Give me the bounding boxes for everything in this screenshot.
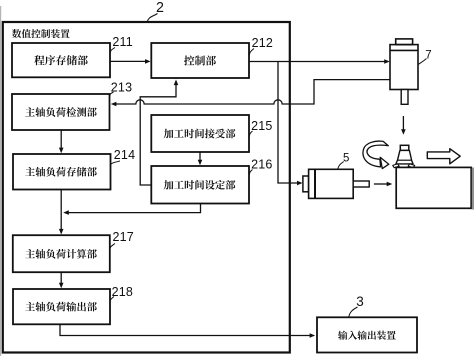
svg-text:214: 214: [114, 148, 135, 162]
leader 7: [418, 59, 426, 65]
leader 217: [110, 244, 115, 249]
wire 216 bottom left to 214-217 line: [69, 204, 201, 213]
svg-text:5: 5: [343, 153, 349, 165]
workpiece: cone body: [396, 150, 413, 164]
text 主轴负荷检测部: [25, 107, 97, 117]
table right shadow: [472, 168, 474, 210]
text 主轴负荷存储部: [25, 167, 97, 177]
svg-text:215: 215: [251, 119, 272, 133]
tool 7: holder body: [390, 45, 418, 90]
text 加工时间接受部: [164, 129, 236, 139]
svg-text:211: 211: [112, 35, 133, 49]
motor 5: end-plate divider: [314, 169, 316, 198]
rotation arrow (spindle rotation indicator): [363, 141, 388, 167]
rotation arrow head: [380, 157, 389, 168]
leader for label 2: [147, 14, 157, 23]
wire/arrow 215 down to 216: [199, 152, 201, 161]
arrow motor 5 to workpiece table: [374, 183, 387, 185]
title text: 数值控制装置: [12, 29, 70, 38]
box 211: 程序存储部 (program storage): [12, 43, 110, 77]
workpiece: top stub: [400, 145, 409, 150]
text 控制部: [184, 55, 216, 65]
leader 214: [110, 161, 120, 165]
wire 218 down and right to I/O device 3: [60, 324, 310, 335]
wire 216 left edge up to 212 bottom: [140, 85, 176, 185]
scan artifact left edge: [0, 6, 1, 356]
text 加工时间设定部: [164, 180, 236, 190]
svg-text:216: 216: [251, 158, 272, 172]
motor 5: body: [309, 169, 354, 198]
box 218: 主轴负荷输出部 (spindle load output): [13, 289, 110, 324]
text 程序存储部: [34, 55, 88, 65]
tool 7: collar divider line: [390, 49, 418, 51]
svg-text:7: 7: [425, 50, 431, 62]
leader 3: [349, 307, 358, 317]
text 输入输出装置: [338, 331, 396, 340]
text 主轴负荷输出部: [25, 302, 97, 312]
feed direction block arrow: [427, 149, 460, 164]
svg-text:217: 217: [112, 230, 133, 244]
leader 5: [338, 162, 344, 169]
tool 7: top cap: [396, 39, 413, 45]
motor 5: left nub: [303, 176, 309, 192]
box 215: 加工时间接受部 (machining time acceptance): [151, 115, 249, 152]
svg-text:213: 213: [111, 81, 132, 95]
svg-text:3: 3: [356, 294, 364, 309]
workpiece: cone collar line: [398, 159, 412, 161]
box 212: 控制部 (control unit): [151, 43, 249, 78]
wire/arrow 217 down to 218: [60, 272, 62, 283]
leader 212: [249, 49, 254, 56]
leader 215: [249, 131, 252, 137]
text 主轴负荷计算部: [25, 249, 97, 259]
workpiece: left clamp wedge: [393, 164, 400, 168]
workpiece: right clamp wedge: [408, 164, 415, 168]
box 214: 主轴负荷存储部 (spindle load storage): [13, 154, 111, 190]
box 217: 主轴负荷计算部 (spindle load calculation): [13, 235, 110, 272]
tool 7: shank: [401, 90, 408, 105]
leader 213: [110, 92, 114, 96]
svg-text:218: 218: [112, 285, 133, 299]
leader 216: [249, 170, 252, 175]
wire/arrow 213 down to 214: [60, 130, 62, 148]
outer box: numerical control device 2: [3, 22, 290, 353]
box 216: 加工时间设定部 (machining time setting): [151, 166, 249, 204]
wire/arrow junction 212-line down to motor 5: [278, 62, 297, 184]
wire/arrow 212 right to tool 7: [249, 61, 385, 63]
leader 211: [110, 48, 115, 54]
wire/arrow 211 to 212: [110, 60, 146, 62]
svg-text:212: 212: [252, 36, 273, 50]
wire from tool 7 back to 213 (spindle load feedback, with hops): [116, 80, 390, 104]
motor 5: shaft: [353, 181, 369, 187]
box 213: 主轴负荷检测部 (spindle load detection): [12, 94, 110, 130]
wire/arrow 214 down to 217: [60, 190, 62, 231]
leader 218: [110, 297, 114, 302]
workpiece table box: [396, 167, 471, 208]
arrow tool 7 down to workpiece: [402, 116, 404, 130]
box 3: 输入输出装置 (input/output device): [317, 317, 417, 352]
